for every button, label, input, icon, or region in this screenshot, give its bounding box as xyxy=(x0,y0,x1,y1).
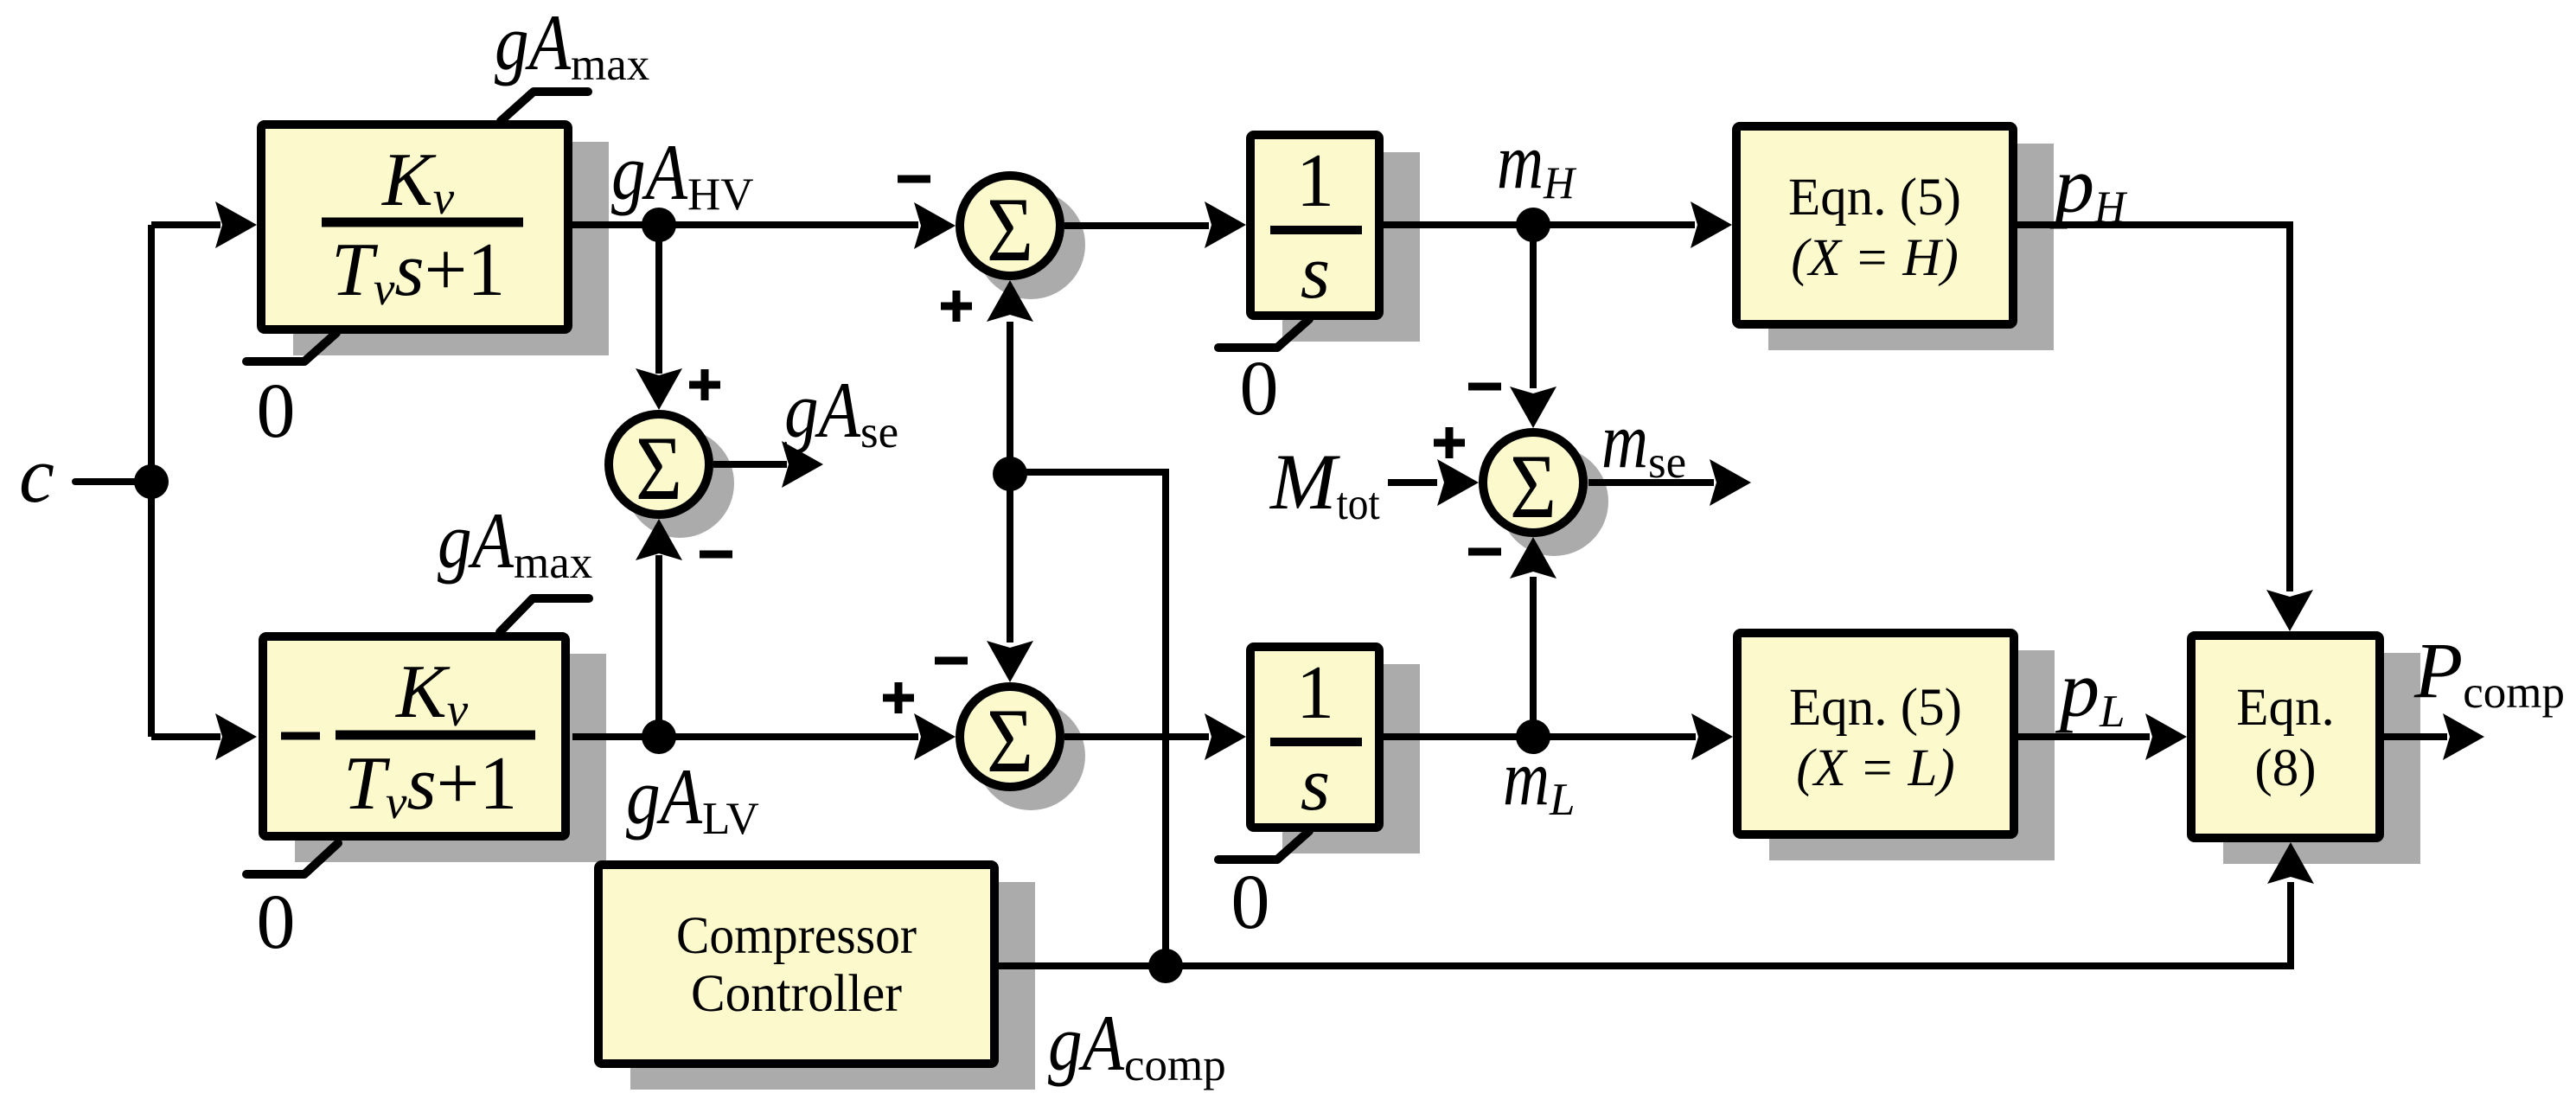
wire: M_tot input arrow xyxy=(1388,479,1437,486)
svg-text:(8): (8) xyxy=(2254,739,2316,797)
junction node gA_comp xyxy=(1148,949,1183,983)
svg-text:Controller: Controller xyxy=(691,965,902,1023)
saturation lower slash I1 xyxy=(1218,319,1309,348)
svg-text:Tvs+1: Tvs+1 xyxy=(331,228,505,315)
summer S3 m_se xyxy=(1483,432,1583,533)
block Eqn5H xyxy=(1736,126,2013,324)
summer S2 top xyxy=(960,176,1060,276)
block I2 integrator low xyxy=(1250,647,1379,828)
shadow of summer S2 xyxy=(976,190,1085,299)
sign minus at S1 bottom input xyxy=(700,551,732,559)
wire: gA_se output arrow xyxy=(713,461,787,468)
svg-text:Σ: Σ xyxy=(987,179,1033,280)
wire: m_H line I1 to Eqn5H xyxy=(1384,221,1695,228)
wire: bottom sum to integrator I2 xyxy=(1064,733,1209,740)
sign plus at S1 top input xyxy=(689,369,720,400)
junction node gA_HV xyxy=(642,208,676,242)
shadow of block B2 xyxy=(295,654,606,862)
svg-text:Eqn. (5): Eqn. (5) xyxy=(1788,169,1961,227)
block I1 integrator high xyxy=(1250,135,1379,316)
shadow of block Eqn5L xyxy=(1769,650,2055,860)
saturation upper slash B1 xyxy=(501,92,588,121)
shadow of block I1 xyxy=(1282,152,1420,342)
block Eqn5L xyxy=(1737,633,2014,834)
B1 fraction bar xyxy=(322,218,523,227)
wire: p_L to Eqn8 xyxy=(2018,733,2150,740)
wire: gA_comp vertical up to top sum xyxy=(1007,322,1013,474)
svg-text:(X = H): (X = H) xyxy=(1791,229,1959,287)
junction node c xyxy=(134,464,169,499)
block Compressor Controller xyxy=(598,865,994,1064)
wire: c trunk vertical xyxy=(148,225,155,737)
wire: gA_comp vertical down to bottom sum xyxy=(1007,474,1013,643)
wire: gA_HV down to gA_se sum xyxy=(655,225,662,374)
junction node comp mid xyxy=(993,457,1027,491)
sign plus at S2 bottom input xyxy=(941,291,972,322)
block B1 valve transfer function HV xyxy=(261,125,568,329)
summer S1 gA_se xyxy=(609,414,709,515)
shadow of summer S3 xyxy=(1499,447,1608,556)
wire: trunk to top block xyxy=(151,221,221,228)
B2 fraction bar xyxy=(336,731,535,740)
svg-text:0: 0 xyxy=(1231,860,1270,945)
svg-text:s: s xyxy=(1301,231,1330,315)
svg-text:Compressor: Compressor xyxy=(676,907,917,965)
junction node gA_LV xyxy=(642,719,676,754)
wire: p_H route right and down to Eqn8 xyxy=(2017,225,2290,591)
block Eqn8 xyxy=(2191,636,2380,838)
svg-text:c: c xyxy=(19,431,54,519)
svg-text:Tvs+1: Tvs+1 xyxy=(343,742,517,828)
I2 fraction 1/s xyxy=(1270,738,1362,746)
summer S4 bottom xyxy=(960,687,1060,787)
shadow of block I2 xyxy=(1282,664,1420,853)
svg-text:Σ: Σ xyxy=(636,418,682,519)
svg-text:Eqn. (5): Eqn. (5) xyxy=(1789,679,1962,737)
wire: gA_HV line B1 to top sum xyxy=(572,221,918,228)
sign plus at S4 left input xyxy=(883,682,914,713)
junction node m_L xyxy=(1516,719,1550,754)
svg-text:Eqn.: Eqn. xyxy=(2236,679,2335,737)
shadow of block B1 xyxy=(293,142,609,355)
sign plus at S3 left input xyxy=(1434,427,1465,458)
sign minus at S2 left input xyxy=(898,176,930,183)
svg-text:0: 0 xyxy=(1240,346,1279,432)
wire: m_se output arrow xyxy=(1588,479,1714,486)
wire: m_L up to m_se sum xyxy=(1530,577,1537,737)
sign minus at S3 top input xyxy=(1468,383,1501,391)
B2 minus sign xyxy=(281,732,320,740)
wire: m_L line I2 to Eqn5L xyxy=(1384,733,1696,740)
sign minus at S3 bottom input xyxy=(1468,548,1501,556)
wire: gA_LV up to gA_se sum xyxy=(655,555,662,737)
svg-text:Σ: Σ xyxy=(987,690,1033,791)
svg-text:1: 1 xyxy=(1296,651,1334,735)
shadow of block CC xyxy=(630,882,1035,1090)
wire: trunk to bottom block xyxy=(151,733,221,740)
sign minus at S4 top input xyxy=(935,657,968,665)
wire: gA_comp branch right and down xyxy=(1010,472,1166,966)
shadow of summer S1 xyxy=(625,429,734,538)
wire: gA_LV line B2 to bottom sum xyxy=(572,733,918,740)
shadow of block Eqn8 xyxy=(2223,653,2420,864)
block B2 valve transfer function LV xyxy=(263,636,566,836)
saturation lower slash I2 xyxy=(1218,831,1309,860)
wire: input c stub xyxy=(75,478,151,485)
saturation lower slash B2 xyxy=(246,843,338,874)
svg-text:0: 0 xyxy=(257,879,296,965)
wire: P_comp output arrow xyxy=(2384,733,2447,740)
shadow of block Eqn5H xyxy=(1768,144,2054,350)
I1 fraction 1/s xyxy=(1270,226,1362,234)
wire: m_H down to m_se sum xyxy=(1530,225,1537,388)
svg-text:s: s xyxy=(1301,743,1330,827)
junction node m_H xyxy=(1516,208,1550,242)
svg-text:(X = L): (X = L) xyxy=(1796,739,1954,797)
svg-text:0: 0 xyxy=(257,368,296,454)
svg-text:Σ: Σ xyxy=(1510,436,1556,537)
saturation lower slash B1 xyxy=(246,333,336,361)
saturation upper slash B2 xyxy=(500,598,589,632)
wire: top sum to integrator I1 xyxy=(1064,222,1209,229)
wire: gA_comp from controller to Eqn8 xyxy=(999,882,2291,966)
shadow of summer S4 xyxy=(976,701,1085,810)
svg-text:1: 1 xyxy=(1296,139,1334,223)
